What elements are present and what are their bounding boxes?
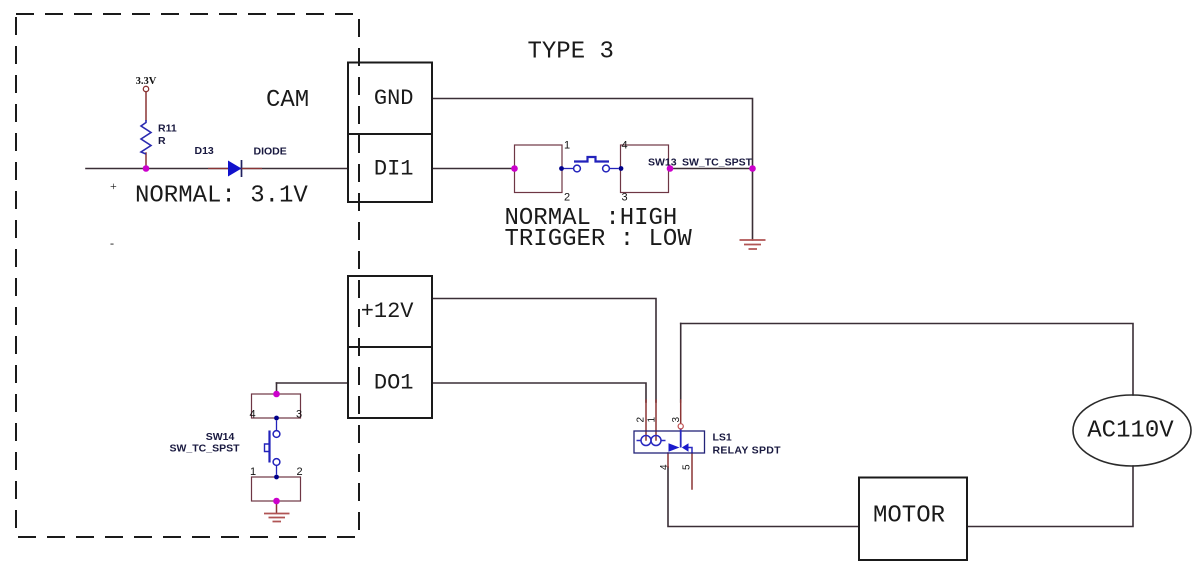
svg-text:DO1: DO1 [374,371,414,396]
svg-text:NORMAL: 3.1V: NORMAL: 3.1V [135,183,308,210]
svg-text:SW_TC_SPST: SW_TC_SPST [682,157,753,169]
svg-text:SW_TC_SPST: SW_TC_SPST [169,443,240,455]
svg-text:R: R [158,135,166,147]
svg-text:1: 1 [647,417,658,423]
svg-text:3: 3 [671,417,682,423]
svg-text:3: 3 [296,409,302,421]
svg-text:RELAY SPDT: RELAY SPDT [713,445,782,457]
svg-text:SW14: SW14 [206,431,235,443]
svg-text:+: + [110,179,117,193]
svg-text:3.3V: 3.3V [136,76,157,87]
svg-text:DIODE: DIODE [254,146,287,158]
svg-text:3: 3 [622,192,628,204]
svg-text:2: 2 [297,466,303,478]
svg-text:4: 4 [622,140,628,152]
svg-text:4: 4 [659,464,670,470]
svg-text:5: 5 [682,464,693,470]
svg-text:2: 2 [564,192,570,204]
svg-text:AC110V: AC110V [1087,418,1174,445]
svg-text:+12V: +12V [361,299,415,324]
svg-text:-: - [110,236,114,250]
svg-text:1: 1 [250,466,256,478]
svg-text:DI1: DI1 [374,157,414,182]
svg-text:4: 4 [250,409,256,421]
svg-text:D13: D13 [195,145,214,157]
svg-text:CAM: CAM [266,87,309,114]
svg-text:R11: R11 [158,123,177,135]
svg-text:2: 2 [636,417,647,423]
svg-text:TYPE 3: TYPE 3 [528,39,614,66]
svg-text:TRIGGER : LOW: TRIGGER : LOW [505,226,693,253]
svg-text:GND: GND [374,86,414,111]
svg-text:1: 1 [564,140,570,152]
svg-text:LS1: LS1 [713,432,732,444]
svg-text:MOTOR: MOTOR [873,503,945,530]
